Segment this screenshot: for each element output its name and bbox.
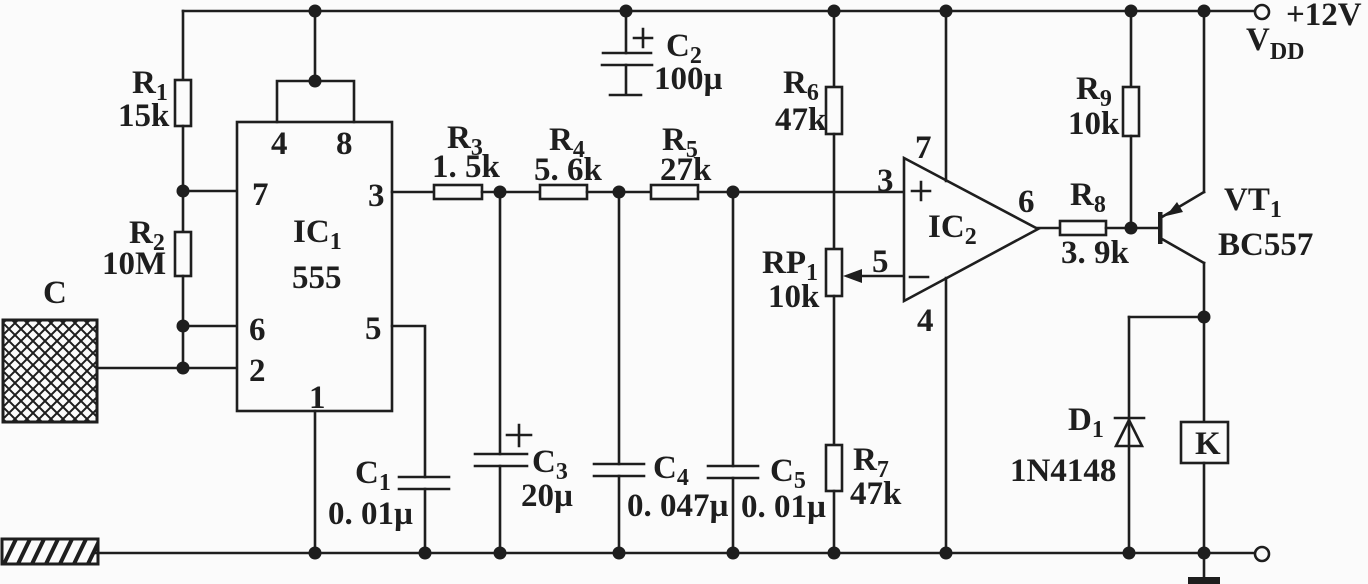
svg-text:1: 1 [309,380,326,416]
transistor Q1 VT1 base bar [1158,212,1163,244]
svg-text:0. 047µ: 0. 047µ [627,488,729,524]
resistor R9 [1123,87,1139,136]
node pin1 rail [309,547,322,560]
wire R7 bottom [833,491,836,553]
svg-text:20µ: 20µ [521,478,573,514]
wire bottom ground rail [96,552,1254,555]
wire R6 top lead [833,11,836,87]
terminal output [1255,547,1269,561]
capacitor C3 [475,454,527,466]
node R6 rail [828,5,841,18]
wire pin5 out [392,326,425,477]
wire R9 top lead [1130,11,1133,87]
svg-text:5. 6k: 5. 6k [534,152,603,188]
node pin6 [177,320,190,333]
resistor R2 [175,232,191,276]
resistor R8 [1060,221,1106,235]
wire pin1 down [314,411,317,553]
wire R6-RP1 [833,134,836,249]
svg-text:3: 3 [877,163,894,199]
svg-text:R8: R8 [1070,177,1106,218]
wire R3-R4 [482,191,540,194]
wire RP1-R7 [833,296,836,445]
node pin7 rail [940,5,953,18]
wire C3 top lead [499,192,502,454]
wire K bottom lead [1203,463,1206,553]
wire top supply rail [183,10,1255,13]
svg-text:3. 9k: 3. 9k [1061,235,1130,271]
node K rail [1198,547,1211,560]
node C1 rail [419,547,432,560]
wire C2 top lead [625,11,628,53]
touch plate C [0,320,198,422]
polarity plus C3 [507,425,531,446]
wire R4-R5 [587,191,651,194]
node pin2 [177,362,190,375]
node C5 rail [727,547,740,560]
node base-R9 [1125,222,1138,235]
resistor R5 [651,185,698,199]
svg-text:4: 4 [271,126,288,162]
wire opamp pin4 [945,278,948,553]
svg-text:5: 5 [365,311,382,347]
svg-text:C1: C1 [355,455,391,496]
capacitor C2 [602,53,652,95]
svg-text:47k: 47k [850,476,902,512]
node R9 rail [1125,5,1138,18]
wire C4 top lead [618,192,621,464]
node emitter rail [1198,5,1211,18]
svg-text:C4: C4 [653,450,689,491]
node R4-R5 [613,186,626,199]
svg-text:K: K [1195,426,1221,462]
resistor R6 [826,87,842,134]
svg-text:5: 5 [872,244,889,280]
node D1 rail [1123,547,1136,560]
IC U1 555 box [237,122,392,411]
resistor R3 [434,185,482,199]
bottom plate electrode [2,537,101,566]
svg-text:10k: 10k [1068,106,1120,142]
svg-text:27k: 27k [660,152,712,188]
svg-text:C5: C5 [770,453,806,494]
svg-text:1N4148: 1N4148 [1010,453,1116,489]
node pin4 rail [940,547,953,560]
svg-text:2: 2 [249,353,266,389]
wire K top lead [1203,317,1206,422]
wire R1-R2 [182,126,185,232]
resistor R4 [540,185,587,199]
resistor R1 [175,80,191,126]
wire C1 bottom [424,489,427,553]
svg-text:10k: 10k [768,279,820,315]
wire R1 top lead [182,11,185,80]
minus input marker [910,276,928,279]
wire C5 top lead [732,192,735,466]
svg-text:15k: 15k [118,98,170,134]
svg-text:R6: R6 [783,65,819,106]
wire R8 to base [1106,227,1158,230]
node collector [1198,311,1211,324]
svg-text:100µ: 100µ [654,61,723,97]
wire C3 bottom [499,466,502,553]
svg-text:10M: 10M [102,246,166,282]
wiper arrow RP1 [843,269,904,283]
terminal +12V [1255,5,1269,19]
svg-text:0. 01µ: 0. 01µ [328,496,413,532]
svg-text:7: 7 [915,130,932,166]
polarity plus C2 [634,29,652,47]
diode D1 [1115,418,1144,446]
node C3 rail [494,547,507,560]
ground [1188,553,1220,584]
op-amp U2 IC2 [904,158,1038,301]
wire R9 bottom [1130,136,1133,228]
svg-text:47k: 47k [775,102,827,138]
wire bridge to rail [314,11,317,81]
capacitor C1 [399,477,449,489]
capacitor C5 [708,466,758,478]
wire opamp output [1037,227,1060,230]
svg-text:3: 3 [368,178,385,214]
wire C4 bottom [618,476,621,553]
wire collector to D1 [1129,316,1204,319]
wire R2 bottom lead [182,276,185,368]
node bridge [309,75,322,88]
svg-text:6: 6 [1018,184,1035,220]
node R7 rail [828,547,841,560]
wire opamp pin7 [945,11,948,181]
node rail-bridge [309,5,322,18]
svg-text:8: 8 [336,126,353,162]
svg-text:D1: D1 [1068,402,1104,443]
svg-text:0. 01µ: 0. 01µ [741,489,826,525]
wire reset bridge pins 4-8 [277,81,354,122]
svg-text:555: 555 [292,260,342,296]
node pin7 [177,185,190,198]
svg-text:4: 4 [917,303,934,339]
potentiometer RP1 [826,249,842,296]
plus input marker [912,182,930,200]
wire C5 bottom [732,478,735,553]
collector lead VT1 [1162,239,1204,317]
wire pin2 from sensor [97,367,237,370]
svg-text:6: 6 [249,312,266,348]
wire D1 top lead [1128,317,1131,418]
svg-text:BC557: BC557 [1218,227,1313,263]
wire D1 bottom lead [1128,420,1131,553]
svg-text:VT1: VT1 [1224,182,1282,223]
node C2 rail [620,5,633,18]
svg-text:1. 5k: 1. 5k [432,149,501,185]
svg-text:7: 7 [252,177,269,213]
resistor R7 [826,445,842,491]
emitter lead VT1 [1162,11,1204,217]
wire pin7 [183,190,237,193]
wire pin3 out [392,191,434,194]
wire R5 to op-amp [698,191,904,194]
node C4 rail [613,547,626,560]
svg-text:+12V: +12V [1286,0,1362,33]
wire pin6 [183,325,237,328]
relay K [1181,422,1228,463]
node R3-R4 [494,186,507,199]
svg-text:C: C [43,275,67,311]
capacitor C4 [594,464,644,476]
node R5-C5 [727,186,740,199]
